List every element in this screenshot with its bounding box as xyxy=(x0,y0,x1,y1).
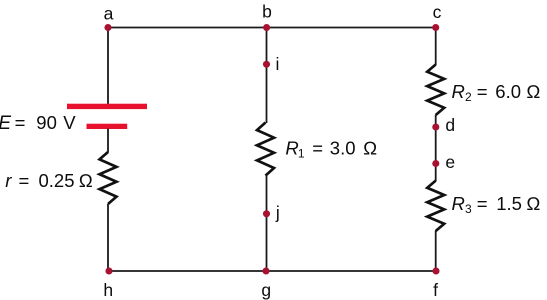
svg-text:6.0: 6.0 xyxy=(495,81,521,102)
svg-text:Ω: Ω xyxy=(526,193,540,214)
svg-text:Ω: Ω xyxy=(526,81,540,102)
svg-text:3.0: 3.0 xyxy=(330,137,356,158)
svg-text:V: V xyxy=(63,112,76,133)
battery plate short (negative) xyxy=(87,124,128,129)
wire top rail a-b-c xyxy=(108,27,436,29)
svg-text:i: i xyxy=(276,54,280,74)
wire r to h xyxy=(107,204,109,271)
resistor r zigzag xyxy=(100,152,117,204)
svg-text:h: h xyxy=(103,280,113,300)
svg-text:=: = xyxy=(312,137,323,158)
wire R3 to f xyxy=(435,231,437,271)
node j xyxy=(263,210,270,217)
node b xyxy=(263,24,270,31)
node i xyxy=(263,61,270,68)
svg-text:Ω: Ω xyxy=(363,137,377,158)
svg-text:d: d xyxy=(445,115,455,135)
svg-text:E: E xyxy=(0,113,11,134)
svg-text:0.25: 0.25 xyxy=(39,170,75,191)
wire R2 to d to e to R3 xyxy=(435,115,437,181)
svg-text:a: a xyxy=(104,4,114,24)
node e xyxy=(432,160,439,167)
node f xyxy=(432,267,439,274)
svg-text:R: R xyxy=(452,81,465,102)
svg-text:=: = xyxy=(477,193,488,214)
svg-text:2: 2 xyxy=(465,90,472,104)
svg-text:=: = xyxy=(477,81,488,102)
svg-text:90: 90 xyxy=(36,112,57,133)
wire b to R1 xyxy=(266,28,268,124)
resistor R3 zigzag xyxy=(427,181,444,231)
svg-text:1.5: 1.5 xyxy=(496,193,522,214)
node d xyxy=(432,123,439,130)
resistor R1 zigzag xyxy=(257,123,274,176)
svg-text:b: b xyxy=(262,2,272,22)
svg-text:R: R xyxy=(452,193,465,214)
svg-text:1: 1 xyxy=(298,146,305,160)
wire a to battery top plate xyxy=(107,28,109,105)
battery plate long (positive) xyxy=(67,104,147,109)
svg-text:R: R xyxy=(285,137,298,158)
svg-text:e: e xyxy=(445,152,455,172)
node h xyxy=(105,267,112,274)
svg-text:=: = xyxy=(15,112,26,133)
node a xyxy=(104,24,111,31)
node g xyxy=(262,267,269,274)
resistor R2 zigzag xyxy=(427,65,444,116)
node c xyxy=(432,24,439,31)
wire R1 to g xyxy=(266,175,268,271)
svg-text:j: j xyxy=(275,203,280,223)
svg-text:=: = xyxy=(19,170,30,191)
svg-text:g: g xyxy=(261,280,271,300)
svg-text:f: f xyxy=(433,280,438,300)
wire battery bottom plate to resistor r xyxy=(107,129,109,153)
svg-text:3: 3 xyxy=(465,202,472,216)
svg-text:r: r xyxy=(5,170,12,191)
svg-text:Ω: Ω xyxy=(79,170,93,191)
wire bottom rail h-g-f xyxy=(109,270,437,272)
svg-text:c: c xyxy=(433,2,442,22)
wire c to R2 xyxy=(435,28,437,66)
